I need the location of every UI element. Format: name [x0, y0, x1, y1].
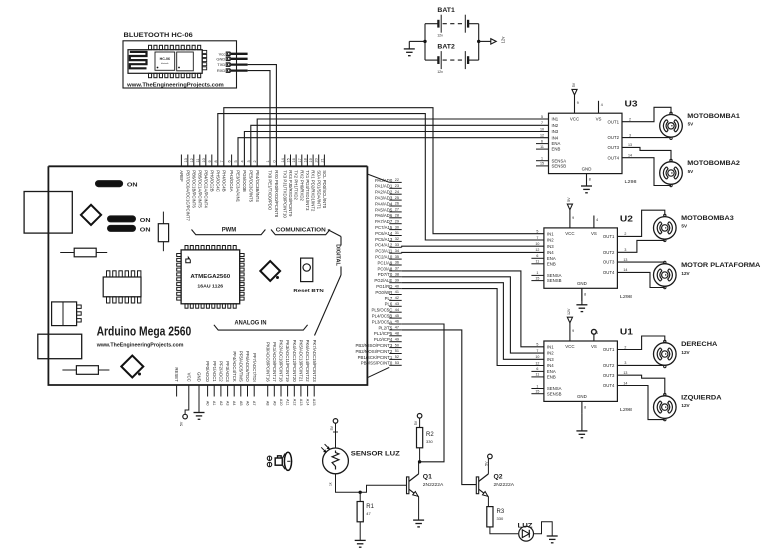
svg-text:BAT1: BAT1	[437, 7, 455, 14]
svg-text:11: 11	[196, 159, 200, 163]
svg-text:7: 7	[536, 236, 538, 240]
svg-text:PB1/SCK/PCINT1: PB1/SCK/PCINT1	[358, 355, 393, 360]
svg-text:PB0/SS/PCINT0: PB0/SS/PCINT0	[361, 361, 393, 366]
svg-text:PB7/OC0A/OC1C/PCINT7: PB7/OC0A/OC1C/PCINT7	[185, 170, 190, 221]
svg-text:32: 32	[395, 237, 399, 241]
svg-text:OUT3: OUT3	[603, 260, 615, 265]
svg-text:49: 49	[395, 337, 399, 341]
svg-text:4: 4	[596, 218, 598, 222]
svg-text:ENB: ENB	[552, 147, 561, 152]
svg-text:3: 3	[624, 361, 626, 365]
svg-text:13: 13	[623, 258, 627, 262]
svg-text:www.TheEngineeringProjects.com: www.TheEngineeringProjects.com	[96, 343, 184, 349]
svg-text:IN1: IN1	[547, 231, 554, 236]
svg-text:PH6/OC2B: PH6/OC2B	[209, 170, 214, 191]
svg-text:53: 53	[395, 361, 399, 365]
svg-text:33: 33	[395, 243, 399, 247]
svg-text:45: 45	[395, 314, 399, 318]
svg-text:42: 42	[395, 296, 399, 300]
svg-text:9: 9	[208, 160, 212, 162]
svg-text:ANALOG IN: ANALOG IN	[234, 320, 266, 326]
svg-text:12: 12	[190, 158, 194, 162]
svg-text:A1: A1	[212, 401, 216, 406]
svg-text:VS: VS	[591, 231, 597, 236]
svg-text:PE3/OC3A/AIN1: PE3/OC3A/AIN1	[236, 170, 241, 202]
svg-text:8: 8	[584, 292, 586, 296]
svg-text:VCC: VCC	[565, 344, 574, 349]
svg-text:1: 1	[536, 384, 538, 388]
svg-text:SENSB: SENSB	[547, 391, 562, 396]
svg-text:12V: 12V	[681, 271, 690, 276]
svg-text:SCL PD0/SCL/INT0: SCL PD0/SCL/INT0	[322, 170, 327, 208]
svg-text:R1: R1	[366, 504, 374, 510]
svg-text:PK5/ADC13/PCINT21: PK5/ADC13/PCINT21	[299, 340, 304, 383]
svg-text:DIGITAL: DIGITAL	[334, 244, 340, 266]
svg-text:RX3 PJ0/RXD3/PCINT9: RX3 PJ0/RXD3/PCINT9	[288, 170, 293, 217]
svg-text:IN2: IN2	[547, 351, 554, 356]
svg-text:PE4/OC3B/INT4: PE4/OC3B/INT4	[255, 170, 260, 202]
svg-text:IN3: IN3	[547, 244, 554, 249]
svg-text:Arduino Mega 2560: Arduino Mega 2560	[97, 324, 192, 339]
svg-text:SENSB: SENSB	[547, 278, 562, 283]
svg-text:0: 0	[272, 160, 276, 162]
svg-text:5: 5	[536, 230, 538, 234]
svg-text:5: 5	[541, 115, 543, 119]
svg-text:IN4: IN4	[547, 250, 554, 255]
svg-text:11: 11	[540, 145, 544, 149]
svg-text:1: 1	[541, 157, 543, 161]
svg-text:2N2222A: 2N2222A	[494, 482, 515, 487]
svg-text:5V: 5V	[484, 461, 488, 466]
svg-text:PK4/ADC12/PCINT20: PK4/ADC12/PCINT20	[292, 340, 297, 383]
svg-text:10: 10	[540, 127, 544, 131]
svg-text:28: 28	[395, 214, 399, 218]
svg-text:5V: 5V	[688, 169, 695, 174]
svg-text:14: 14	[281, 158, 285, 162]
svg-text:15: 15	[287, 158, 291, 162]
svg-text:U3: U3	[625, 99, 638, 109]
svg-text:10: 10	[535, 242, 539, 246]
svg-text:PWM: PWM	[222, 228, 237, 234]
svg-text:36: 36	[395, 261, 399, 265]
svg-text:PF1/ADC1: PF1/ADC1	[212, 361, 217, 382]
svg-text:18: 18	[303, 158, 307, 162]
svg-text:4: 4	[601, 103, 603, 107]
svg-text:ENA: ENA	[547, 369, 556, 374]
svg-text:GND: GND	[577, 281, 587, 286]
svg-text:RX1 PD2/RXD1/INT2: RX1 PD2/RXD1/INT2	[311, 170, 316, 212]
svg-text:A2: A2	[219, 401, 223, 406]
svg-text:PH3/OC4A: PH3/OC4A	[229, 170, 234, 191]
svg-text:3: 3	[629, 133, 631, 137]
svg-text:PK0/ADC8/PCINT16: PK0/ADC8/PCINT16	[265, 342, 270, 382]
svg-text:10: 10	[202, 158, 206, 162]
svg-text:52: 52	[395, 355, 399, 359]
svg-text:8: 8	[584, 405, 586, 409]
svg-text:PL5/OC5C: PL5/OC5C	[372, 308, 393, 313]
svg-text:IN4: IN4	[552, 135, 559, 140]
svg-text:4: 4	[240, 160, 244, 162]
svg-text:12: 12	[535, 361, 539, 365]
svg-text:5V: 5V	[180, 421, 184, 426]
svg-text:9: 9	[572, 329, 574, 333]
svg-text:37: 37	[395, 267, 399, 271]
svg-text:2: 2	[624, 232, 626, 236]
svg-text:7: 7	[536, 349, 538, 353]
svg-text:2: 2	[624, 345, 626, 349]
svg-text:1k: 1k	[329, 482, 333, 486]
svg-text:34: 34	[395, 249, 399, 253]
svg-text:OUT1: OUT1	[603, 234, 615, 239]
svg-text:5: 5	[234, 160, 238, 162]
svg-text:5V: 5V	[567, 197, 571, 202]
svg-text:IN3: IN3	[552, 129, 559, 134]
svg-text:12V: 12V	[567, 308, 571, 315]
svg-text:L298: L298	[625, 179, 638, 184]
svg-text:PK3/ADC11/PCINT19: PK3/ADC11/PCINT19	[285, 340, 290, 382]
svg-text:AREF: AREF	[179, 170, 184, 182]
svg-text:16AU 1126: 16AU 1126	[197, 283, 224, 288]
svg-text:5: 5	[536, 343, 538, 347]
svg-text:29: 29	[395, 219, 399, 223]
svg-text:PK1/ADC9/PCINT17: PK1/ADC9/PCINT17	[272, 342, 277, 382]
svg-text:PF7/ADC7/TDI: PF7/ADC7/TDI	[252, 353, 257, 382]
svg-text:50: 50	[395, 343, 399, 347]
svg-text:PK7/ADC15/PCINT23: PK7/ADC15/PCINT23	[312, 340, 317, 383]
svg-text:ON: ON	[127, 183, 138, 189]
svg-text:27: 27	[395, 208, 399, 212]
svg-text:5V: 5V	[681, 224, 688, 229]
svg-text:15: 15	[535, 276, 539, 280]
svg-text:12V: 12V	[681, 403, 690, 408]
svg-text:41: 41	[395, 290, 399, 294]
svg-text:ON: ON	[140, 218, 151, 224]
svg-text:RX0 PE0/RXD0/PCINT8: RX0 PE0/RXD0/PCINT8	[274, 170, 279, 217]
svg-text:OUT4: OUT4	[603, 270, 615, 275]
svg-text:U1: U1	[620, 327, 633, 337]
svg-text:48: 48	[395, 332, 399, 336]
svg-text:330: 330	[426, 439, 433, 444]
svg-text:OUT4: OUT4	[603, 383, 615, 388]
svg-text:PF2/ADC2: PF2/ADC2	[219, 361, 224, 382]
svg-text:12V: 12V	[681, 350, 690, 355]
svg-text:L298: L298	[620, 294, 633, 299]
svg-text:VCC: VCC	[186, 373, 191, 382]
svg-text:SENSB: SENSB	[552, 164, 567, 169]
svg-text:PG5/OC0B: PG5/OC0B	[242, 170, 247, 192]
svg-text:SENSOR LUZ: SENSOR LUZ	[351, 450, 400, 457]
svg-text:6: 6	[536, 367, 538, 371]
svg-text:BLUETOOTH HC-06: BLUETOOTH HC-06	[124, 32, 194, 39]
svg-text:OUT2: OUT2	[603, 363, 615, 368]
svg-text:A12: A12	[292, 399, 296, 406]
svg-text:2N2222A: 2N2222A	[423, 482, 444, 487]
svg-text:PE5/OC3C/INT5: PE5/OC3C/INT5	[248, 170, 253, 202]
svg-text:GND: GND	[577, 394, 587, 399]
svg-text:MOTOBOMBA1: MOTOBOMBA1	[687, 113, 740, 120]
svg-text:16: 16	[292, 158, 296, 162]
svg-text:HC-06: HC-06	[160, 57, 170, 61]
svg-text:MOTOBOMBA3: MOTOBOMBA3	[681, 215, 734, 222]
svg-text:VS: VS	[591, 344, 597, 349]
svg-text:IN1: IN1	[547, 344, 554, 349]
svg-text:25: 25	[395, 196, 399, 200]
svg-text:7: 7	[220, 160, 224, 162]
svg-text:38: 38	[395, 273, 399, 277]
svg-text:44: 44	[395, 308, 399, 312]
svg-text:ENA: ENA	[547, 256, 556, 261]
svg-text:5V: 5V	[330, 425, 334, 430]
svg-text:A11: A11	[286, 399, 290, 405]
svg-text:13: 13	[623, 371, 627, 375]
svg-text:39: 39	[395, 278, 399, 282]
svg-text:PB5/OC1A/PCINT5: PB5/OC1A/PCINT5	[197, 170, 202, 208]
svg-text:13: 13	[184, 158, 188, 162]
svg-text:www.TheEngineeringProjects.com: www.TheEngineeringProjects.com	[126, 82, 224, 88]
svg-text:24: 24	[395, 190, 399, 194]
svg-text:IN2: IN2	[547, 238, 554, 243]
svg-text:IN2: IN2	[552, 123, 559, 128]
svg-text:bluetooth: bluetooth	[161, 62, 168, 65]
svg-text:20: 20	[315, 158, 319, 162]
svg-text:PB6/OC1B/PCINT6: PB6/OC1B/PCINT6	[191, 170, 196, 208]
svg-text:ENA: ENA	[552, 141, 561, 146]
svg-text:5V: 5V	[414, 420, 418, 425]
svg-text:26: 26	[395, 202, 399, 206]
svg-text:9: 9	[572, 216, 574, 220]
svg-text:7: 7	[541, 121, 543, 125]
svg-text:23: 23	[395, 184, 399, 188]
svg-text:PF0/ADC0: PF0/ADC0	[205, 361, 210, 382]
svg-text:TX3 PJ1/TXD3/PCINT10: TX3 PJ1/TXD3/PCINT10	[282, 170, 287, 218]
svg-text:IN4: IN4	[547, 363, 554, 368]
svg-text:17: 17	[298, 158, 302, 162]
svg-text:6: 6	[536, 254, 538, 258]
svg-text:BAT2: BAT2	[437, 44, 455, 51]
svg-text:OUT3: OUT3	[608, 145, 620, 150]
svg-text:Reset BTN: Reset BTN	[293, 288, 324, 294]
svg-text:2: 2	[253, 160, 257, 162]
svg-text:IZQUIERDA: IZQUIERDA	[681, 394, 722, 401]
svg-text:12: 12	[535, 248, 539, 252]
svg-text:6: 6	[541, 139, 543, 143]
svg-text:ON: ON	[140, 227, 151, 233]
svg-text:RESET: RESET	[174, 367, 179, 382]
svg-text:47: 47	[366, 511, 371, 516]
svg-text:ENB: ENB	[547, 261, 556, 266]
svg-text:VS: VS	[596, 116, 602, 121]
svg-text:A3: A3	[226, 401, 230, 406]
svg-text:RX2 PH0/RXD2: RX2 PH0/RXD2	[299, 170, 304, 201]
svg-text:330: 330	[497, 516, 504, 521]
svg-text:A7: A7	[252, 401, 256, 406]
svg-text:9: 9	[577, 101, 579, 105]
svg-text:DERECHA: DERECHA	[681, 341, 718, 348]
svg-text:A6: A6	[246, 401, 250, 406]
svg-text:A0: A0	[206, 401, 210, 406]
svg-text:35: 35	[395, 255, 399, 259]
svg-text:PF6/ADC6/TDO: PF6/ADC6/TDO	[245, 351, 250, 382]
svg-text:RXD: RXD	[217, 68, 226, 73]
svg-text:Q1: Q1	[423, 474, 432, 481]
svg-text:A14: A14	[306, 399, 310, 406]
svg-text:PK6/ADC14/PCINT22: PK6/ADC14/PCINT22	[305, 340, 310, 383]
svg-text:PF5/ADC5/TMS: PF5/ADC5/TMS	[238, 351, 243, 382]
svg-text:19: 19	[309, 158, 313, 162]
svg-text:11: 11	[536, 373, 540, 377]
svg-text:A10: A10	[279, 399, 283, 406]
svg-text:R3: R3	[497, 509, 505, 515]
svg-text:IN3: IN3	[547, 357, 554, 362]
svg-text:TX0 PE1/TXD0/PDO: TX0 PE1/TXD0/PDO	[268, 170, 273, 211]
svg-text:ENB: ENB	[547, 375, 556, 380]
svg-text:30: 30	[395, 225, 399, 229]
svg-text:TX2 PH1/TXD2: TX2 PH1/TXD2	[294, 170, 299, 200]
svg-text:14: 14	[628, 154, 632, 158]
svg-text:47: 47	[395, 326, 399, 330]
svg-text:VCC: VCC	[570, 116, 579, 121]
svg-text:TXD: TXD	[217, 62, 225, 67]
svg-text:A5: A5	[239, 401, 243, 406]
svg-text:PK2/ADC10/PCINT18: PK2/ADC10/PCINT18	[279, 340, 284, 383]
svg-text:TX1 PD3/TXD1/INT3: TX1 PD3/TXD1/INT3	[305, 170, 310, 211]
svg-text:3: 3	[247, 160, 251, 162]
svg-text:46: 46	[395, 320, 399, 324]
svg-text:5V: 5V	[688, 122, 695, 127]
svg-text:51: 51	[395, 349, 399, 353]
svg-text:12v: 12v	[437, 70, 443, 74]
svg-text:PF4/ADC4/TCK: PF4/ADC4/TCK	[232, 351, 237, 381]
svg-text:12: 12	[540, 134, 544, 138]
svg-text:22: 22	[395, 178, 399, 182]
svg-text:14: 14	[623, 381, 627, 385]
svg-text:15: 15	[535, 390, 539, 394]
svg-text:40: 40	[395, 284, 399, 288]
svg-text:A13: A13	[299, 399, 303, 406]
svg-text:PH4/OC4B: PH4/OC4B	[221, 170, 226, 191]
svg-text:SDA PD1/SDA/INT1: SDA PD1/SDA/INT1	[316, 170, 321, 209]
svg-text:21: 21	[320, 158, 324, 162]
svg-text:12v: 12v	[501, 36, 506, 44]
svg-text:R2: R2	[426, 432, 434, 438]
svg-text:31: 31	[395, 231, 399, 235]
svg-text:8: 8	[589, 178, 591, 182]
svg-text:OUT1: OUT1	[608, 119, 620, 124]
svg-text:MOTOBOMBA2: MOTOBOMBA2	[687, 160, 740, 167]
svg-text:2: 2	[629, 118, 631, 122]
svg-text:PB4/OC2A/PCINT4: PB4/OC2A/PCINT4	[203, 170, 208, 208]
svg-text:VCC: VCC	[565, 231, 574, 236]
svg-text:COMUNICATION: COMUNICATION	[276, 228, 326, 234]
svg-text:5V: 5V	[572, 82, 576, 87]
svg-text:1: 1	[266, 160, 270, 162]
svg-text:PB3/MISO/PCINT3: PB3/MISO/PCINT3	[356, 343, 393, 348]
svg-text:U2: U2	[620, 213, 633, 223]
svg-text:43: 43	[395, 302, 399, 306]
svg-text:14: 14	[623, 268, 627, 272]
svg-text:GND: GND	[582, 166, 592, 171]
svg-text:6: 6	[228, 160, 232, 162]
svg-text:PH5/OC4C: PH5/OC4C	[215, 170, 220, 192]
svg-text:8: 8	[214, 160, 218, 162]
svg-text:GND: GND	[216, 56, 225, 61]
svg-text:13: 13	[628, 143, 632, 147]
svg-text:PF3/ADC3: PF3/ADC3	[225, 361, 230, 382]
svg-text:A4: A4	[232, 401, 236, 406]
svg-text:PB2/MOSI/PCINT2: PB2/MOSI/PCINT2	[356, 349, 393, 354]
svg-text:OUT4: OUT4	[608, 155, 620, 160]
svg-text:OUT2: OUT2	[608, 135, 620, 140]
svg-text:10: 10	[535, 355, 539, 359]
svg-text:12v: 12v	[437, 34, 443, 38]
svg-text:L298: L298	[620, 407, 633, 412]
svg-text:A15: A15	[312, 399, 316, 406]
svg-text:MOTOR PLATAFORMA: MOTOR PLATAFORMA	[681, 262, 761, 269]
svg-text:4: 4	[596, 331, 598, 335]
svg-text:ATMEGA2560: ATMEGA2560	[190, 274, 230, 280]
svg-text:IN1: IN1	[552, 117, 559, 122]
svg-text:A8: A8	[266, 401, 270, 406]
svg-text:OUT2: OUT2	[603, 250, 615, 255]
svg-text:OUT3: OUT3	[603, 373, 615, 378]
svg-text:3: 3	[624, 248, 626, 252]
svg-text:Q2: Q2	[494, 474, 503, 481]
svg-text:OUT1: OUT1	[603, 347, 615, 352]
svg-text:15: 15	[540, 162, 544, 166]
svg-text:GND: GND	[197, 372, 202, 382]
svg-text:1: 1	[536, 271, 538, 275]
svg-text:11: 11	[536, 260, 540, 264]
svg-text:A9: A9	[272, 401, 276, 406]
svg-text:LUZ: LUZ	[518, 522, 533, 529]
